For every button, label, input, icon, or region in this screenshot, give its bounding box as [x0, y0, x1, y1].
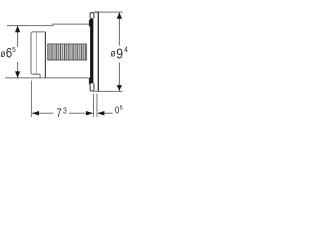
- housing top edge at ø6.5 level plus left extension line: [7, 25, 53, 27]
- bellows band right border: [86, 44, 88, 60]
- dimension ø9.4 line upper segment: [118, 13, 120, 46]
- bellows band top border: [47, 43, 86, 45]
- dimension 0.6 tail line: [104, 112, 113, 114]
- dimension 0.6 arrow pointing left at button face: [97, 111, 104, 116]
- end cap seam: [35, 32, 37, 73]
- dimension ø6.5 arrow up: [15, 26, 20, 33]
- dimension ø9.4 bottom extension line: [94, 90, 123, 92]
- housing bottom edge plus left extension line: [5, 77, 90, 79]
- svg-text:ø65: ø65: [0, 44, 15, 60]
- plate bottom rim: [90, 83, 94, 91]
- push plate body edge view: [90, 17, 93, 84]
- dimension 7.3 arrow right: [86, 111, 93, 116]
- mounting tab bottom: [89, 78, 91, 84]
- svg-text:06: 06: [115, 105, 123, 116]
- mounting tab top: [89, 20, 91, 27]
- dimension 0.6 right extension line (button front): [96, 94, 98, 117]
- bottom step of cap: [39, 74, 41, 78]
- dimension 7.3 / 0.6 shared extension line (plate front): [93, 94, 95, 117]
- bellows knurled band: [47, 44, 86, 60]
- dimension ø9.4 top extension line: [94, 11, 122, 13]
- dimension 7.3 line left segment: [32, 112, 53, 114]
- svg-text:ø94: ø94: [111, 45, 128, 62]
- plate top rim: [90, 13, 94, 18]
- dimension ø9.4 line lower segment: [118, 62, 120, 91]
- dimension 7.3 line right segment: [69, 112, 93, 114]
- dimension 7.3 arrow left: [32, 111, 39, 116]
- dimension 7.3 left extension line: [30, 81, 32, 117]
- bellows band bottom border: [47, 59, 86, 61]
- top step between ø6.5 section and top rib: [52, 24, 54, 26]
- dimension ø6.5 line upper segment: [17, 26, 19, 47]
- housing top rib edge: [53, 23, 91, 25]
- svg-text:73: 73: [56, 106, 66, 120]
- dimension ø9.4 arrow down: [117, 85, 122, 91]
- end cap outline: [31, 32, 45, 74]
- dimension ø9.4 arrow up: [117, 12, 122, 18]
- dimension ø6.5 line lower segment: [17, 62, 19, 78]
- button front face: [97, 12, 99, 91]
- end cap right face: [44, 32, 46, 78]
- dimension ø6.5 arrow down: [15, 71, 20, 78]
